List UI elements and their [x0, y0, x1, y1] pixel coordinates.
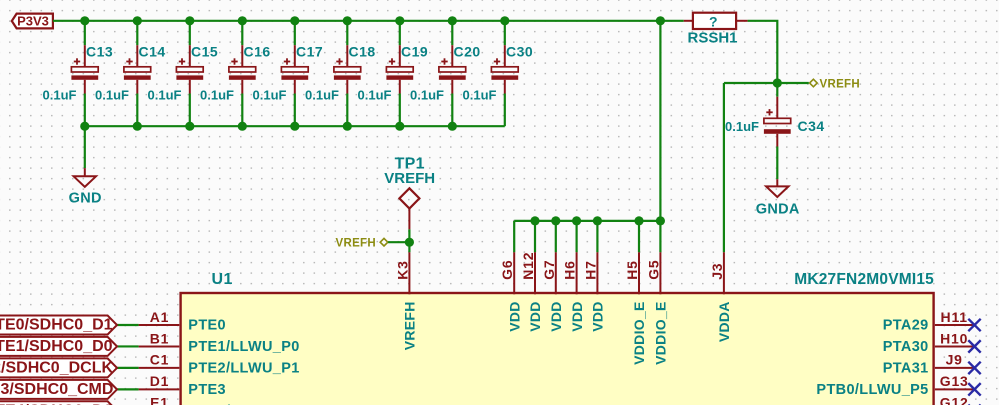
svg-text:0.1uF: 0.1uF [305, 87, 339, 102]
C19 reference label [401, 43, 428, 59]
junction top rail at C17 [290, 16, 299, 25]
svg-text:PTA31: PTA31 [883, 361, 929, 377]
IC U1 body [181, 293, 934, 405]
svg-text:G7: G7 [541, 260, 557, 280]
C18 value 0.1uF [305, 87, 339, 102]
svg-text:PTB0/LLWU_P5: PTB0/LLWU_P5 [816, 382, 928, 398]
C13 reference label [86, 43, 113, 59]
capacitor C13 [71, 21, 98, 126]
wire label to pin A1 [116, 324, 139, 326]
capacitor C16 [229, 21, 256, 126]
global label PTE3/SDHC0_CMD [0, 380, 117, 399]
pin C1 (PTE2/LLWU_P1) [139, 352, 300, 377]
C14 reference label [139, 43, 166, 59]
C19 value 0.1uF [358, 87, 392, 102]
test point TP1 value VREFH [384, 170, 435, 187]
junction bottom rail at C17 [290, 122, 299, 131]
C30 value 0.1uF [463, 87, 497, 102]
capacitor C19 [386, 21, 413, 126]
pin H11 (PTA29) [883, 309, 975, 334]
RSSH1 reference label [687, 30, 737, 47]
svg-text:VDDIO_E: VDDIO_E [631, 301, 647, 365]
svg-text:H6: H6 [562, 260, 578, 280]
wire VREFH label to junction [388, 241, 409, 243]
C20 value 0.1uF [410, 87, 444, 102]
svg-text:0.1uF: 0.1uF [358, 87, 392, 102]
wire label to pin D1 [116, 388, 139, 390]
svg-text:PTE3/SDHC0_CMD: PTE3/SDHC0_CMD [0, 381, 113, 398]
svg-text:VDD: VDD [548, 301, 564, 331]
svg-text:PTE1/SDHC0_D0: PTE1/SDHC0_D0 [0, 338, 113, 355]
hierarchical label VREFH (right) [810, 79, 860, 91]
svg-text:0.1uF: 0.1uF [200, 87, 234, 102]
junction top rail at C18 [343, 16, 352, 25]
pin G6 (VDD) [499, 221, 522, 332]
C15 value 0.1uF [148, 87, 182, 102]
C15 reference label [191, 43, 218, 59]
C14 value 0.1uF [95, 87, 129, 102]
wire GND rail [85, 125, 505, 127]
svg-text:C19: C19 [401, 43, 428, 59]
junction top rail at C16 [238, 16, 247, 25]
svg-text:C14: C14 [139, 43, 166, 59]
svg-text:VDD: VDD [506, 301, 522, 331]
svg-text:0.1uF: 0.1uF [148, 87, 182, 102]
junction bottom rail at C19 [395, 122, 404, 131]
junction bottom rail at C14 [133, 122, 142, 131]
wire TP1 to pin K3 [408, 229, 410, 252]
ground GNDA [756, 179, 800, 217]
pin J9 (PTA31) [883, 352, 975, 377]
C16 value 0.1uF [200, 87, 234, 102]
svg-text:GND: GND [69, 190, 102, 206]
svg-text:VREFH: VREFH [820, 79, 860, 91]
svg-text:E1: E1 [150, 395, 169, 405]
svg-text:?: ? [709, 13, 718, 29]
global label PTE0/SDHC0_D1 [0, 316, 117, 335]
junction VDD manifold [572, 216, 581, 225]
wire C34 to GNDA [776, 147, 778, 180]
C30 reference label [506, 43, 533, 59]
svg-text:C1: C1 [150, 352, 170, 368]
ground GND [69, 126, 102, 206]
svg-text:0.1uF: 0.1uF [253, 87, 287, 102]
pin A1 (PTE0) [139, 309, 226, 334]
no-connect on pin G13 [968, 383, 980, 395]
svg-text:C20: C20 [454, 43, 481, 59]
power flag P3V3 [12, 14, 53, 29]
U1 reference label [212, 271, 233, 288]
junction bottom rail at C18 [343, 122, 352, 131]
junction VDD manifold [551, 216, 560, 225]
svg-text:H5: H5 [624, 260, 640, 280]
junction VDD manifold [656, 216, 665, 225]
svg-text:GNDA: GNDA [756, 201, 800, 217]
global label PTE2/SDHC0_DCLK [0, 358, 117, 377]
svg-text:VDD: VDD [527, 301, 543, 331]
svg-text:0.1uF: 0.1uF [463, 87, 497, 102]
junction VDD manifold [593, 216, 602, 225]
test point TP1 reference [395, 156, 425, 173]
wire P3V3 rail [53, 20, 684, 22]
svg-text:C17: C17 [296, 43, 323, 59]
C20 reference label [454, 43, 481, 59]
pin B1 (PTE1/LLWU_P0) [139, 330, 300, 355]
pin H6 (VDD) [562, 221, 585, 332]
junction bottom rail at C20 [448, 122, 457, 131]
capacitor C20 [439, 21, 466, 126]
svg-text:B1: B1 [150, 330, 170, 346]
svg-text:VDD: VDD [590, 301, 606, 331]
junction bottom rail at C13 [80, 122, 89, 131]
svg-text:C13: C13 [86, 43, 113, 59]
pin G13 (PTB0/LLWU_P5) [816, 373, 974, 398]
svg-text:G12: G12 [940, 395, 969, 405]
junction top rail at C20 [448, 16, 457, 25]
svg-text:G13: G13 [940, 373, 969, 389]
svg-text:0.1uF: 0.1uF [410, 87, 444, 102]
C17 reference label [296, 43, 323, 59]
svg-text:D1: D1 [150, 373, 170, 389]
wire label to pin B1 [116, 345, 139, 347]
pin G7 (VDD) [541, 221, 564, 332]
wire label to pin C1 [116, 367, 139, 369]
junction top rail at C13 [80, 16, 89, 25]
svg-text:0.1uF: 0.1uF [95, 87, 129, 102]
capacitor C18 [334, 21, 361, 126]
resistor RSSH1 [684, 13, 748, 29]
svg-text:J3: J3 [709, 263, 725, 280]
pin G12 (PTB1) [890, 395, 974, 405]
svg-text:PTE0: PTE0 [188, 318, 226, 334]
wire junction to VREFH label [777, 82, 809, 84]
hierarchical label VREFH (left) [336, 237, 388, 249]
svg-text:C18: C18 [349, 43, 376, 59]
junction top rail at C14 [133, 16, 142, 25]
svg-text:VDD: VDD [569, 301, 585, 331]
pin E1 (PTE4/LLWU_P3) [139, 395, 300, 405]
svg-text:PTA29: PTA29 [883, 318, 929, 334]
svg-text:U1: U1 [212, 271, 233, 288]
svg-text:C16: C16 [244, 43, 271, 59]
svg-text:VREFH: VREFH [336, 237, 376, 249]
svg-text:PTE0/SDHC0_D1: PTE0/SDHC0_D1 [0, 317, 113, 334]
C16 reference label [244, 43, 271, 59]
no-connect on pin J9 [968, 362, 980, 374]
test point TP1 symbol [399, 188, 419, 229]
junction at VREFH node [405, 238, 414, 247]
svg-text:PTE3: PTE3 [188, 382, 226, 398]
svg-text:H11: H11 [941, 309, 968, 325]
junction top rail at C19 [395, 16, 404, 25]
wire VREFH node to VDDA drop [724, 82, 777, 84]
svg-text:G5: G5 [645, 260, 661, 280]
svg-text:G6: G6 [499, 260, 515, 280]
svg-text:K3: K3 [394, 260, 410, 280]
svg-text:J9: J9 [946, 352, 963, 368]
capacitor C14 [124, 21, 151, 126]
C17 value 0.1uF [253, 87, 287, 102]
pin H5 (VDDIO_E) [624, 221, 647, 365]
C18 reference label [349, 43, 376, 59]
svg-text:VDDIO_E: VDDIO_E [653, 301, 669, 365]
svg-text:VREFH: VREFH [402, 301, 418, 350]
junction top rail at C15 [185, 16, 194, 25]
svg-text:0.1uF: 0.1uF [43, 87, 77, 102]
pin K3 (VREFH) [394, 252, 417, 350]
wire VDDA drop [723, 83, 725, 252]
capacitor C15 [176, 21, 203, 126]
capacitor C34 [764, 83, 791, 147]
pin H7 (VDD) [582, 221, 605, 332]
junction bottom rail at C16 [238, 122, 247, 131]
U1 value MK27FN2M0VMI15 [794, 271, 934, 288]
wire resistor to VREFH node [748, 21, 778, 83]
global label PTE4/SDHC0_D3 [0, 401, 117, 405]
junction VREFH net [773, 78, 782, 87]
wire VDD manifold [514, 220, 660, 222]
C13 value 0.1uF [43, 87, 77, 102]
junction bottom rail at C15 [185, 122, 194, 131]
wire rail to VDD manifold [659, 21, 661, 221]
svg-text:PTE2/LLWU_P1: PTE2/LLWU_P1 [188, 361, 299, 377]
RSSH1 value ? [709, 13, 718, 29]
svg-text:VDDA: VDDA [716, 301, 732, 342]
svg-text:C34: C34 [798, 118, 825, 134]
svg-text:PTE1/LLWU_P0: PTE1/LLWU_P0 [188, 339, 299, 355]
no-connect on pin H11 [968, 319, 980, 331]
C34 value 0.1uF [725, 119, 759, 134]
svg-text:C30: C30 [506, 43, 533, 59]
svg-text:RSSH1: RSSH1 [687, 30, 737, 47]
svg-text:0.1uF: 0.1uF [725, 119, 759, 134]
svg-text:PTE2/SDHC0_DCLK: PTE2/SDHC0_DCLK [0, 360, 113, 377]
pin G5 (VDDIO_E) [645, 221, 668, 365]
svg-text:PTA30: PTA30 [883, 339, 929, 355]
junction VDD manifold [530, 216, 539, 225]
junction top rail to G5 drop [656, 16, 665, 25]
pin N12 (VDD) [520, 221, 543, 332]
pin H10 (PTA30) [883, 330, 975, 355]
svg-text:A1: A1 [150, 309, 170, 325]
svg-text:P3V3: P3V3 [17, 14, 49, 29]
C34 reference label [798, 118, 825, 134]
no-connect on pin H10 [968, 340, 980, 352]
global label PTE1/SDHC0_D0 [0, 337, 117, 356]
junction top rail at C30 [500, 16, 509, 25]
capacitor C30 [491, 21, 518, 126]
svg-text:N12: N12 [520, 252, 536, 280]
pin D1 (PTE3) [139, 373, 226, 398]
junction VDD manifold [634, 216, 643, 225]
svg-text:H7: H7 [582, 260, 598, 280]
capacitor C17 [281, 21, 308, 126]
pin J3 (VDDA) [709, 252, 732, 342]
svg-text:C15: C15 [191, 43, 218, 59]
svg-text:VREFH: VREFH [384, 170, 435, 187]
svg-text:MK27FN2M0VMI15: MK27FN2M0VMI15 [794, 271, 934, 288]
svg-text:H10: H10 [940, 330, 968, 346]
